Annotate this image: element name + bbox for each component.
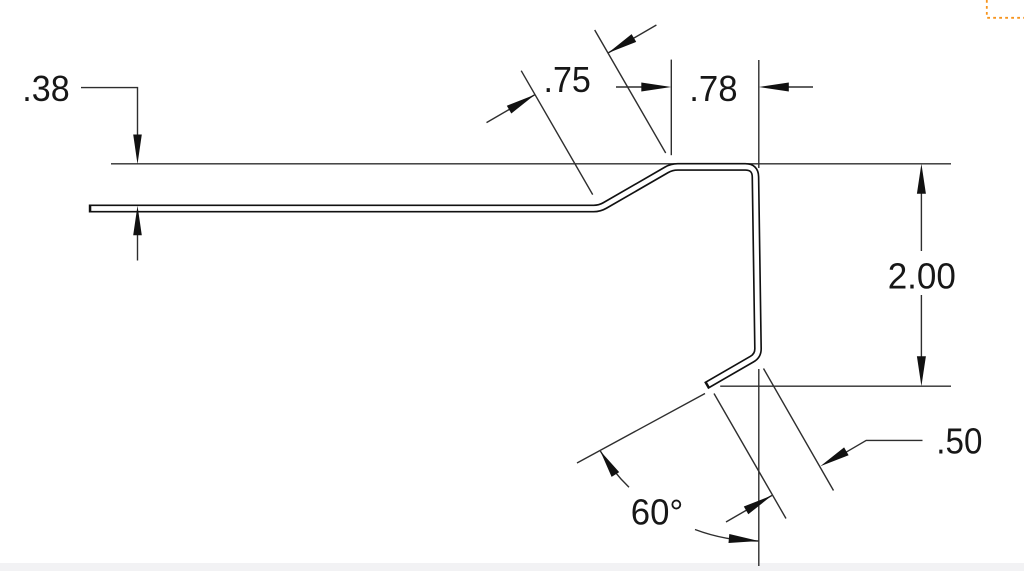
- profile inner white: [91, 167, 758, 384]
- extension line bottom (2.00): [720, 385, 951, 387]
- dim 60 arrow upper: [600, 451, 619, 477]
- svg-text:.75: .75: [544, 59, 591, 100]
- dim .78 right stem: [785, 86, 813, 88]
- dim .38 leader: [81, 88, 138, 150]
- dim .50 arrow upper-right: [820, 447, 848, 466]
- dim .78 arrow right: [759, 83, 789, 92]
- extension line .75 lower: [521, 71, 593, 195]
- svg-text:2.00: 2.00: [888, 256, 956, 297]
- extension line .50 upper: [764, 369, 834, 491]
- dim 2.00 arrow down: [917, 356, 926, 386]
- dim .38 arrow up: [133, 206, 142, 236]
- dim .75 arrow left: [507, 95, 535, 114]
- datum vertical line upper (.78 right extension): [758, 60, 760, 168]
- dim .75 arrow left stem: [487, 95, 536, 123]
- dim 2.00 line lower: [920, 295, 922, 362]
- dim 60 arc piece left: [600, 451, 629, 487]
- dim .78 left stem: [616, 86, 650, 88]
- extension line .50 lower: [714, 394, 786, 519]
- sheet boundary corner (orange dashed): [987, 0, 1024, 18]
- dim .38 arrow down: [133, 135, 142, 165]
- extension line .75 upper: [595, 30, 666, 153]
- svg-text:60°: 60°: [631, 492, 684, 533]
- extension line top (shared .38 / 2.00 datum): [111, 163, 951, 165]
- dim .75 arrow right: [608, 34, 636, 53]
- svg-text:.38: .38: [22, 68, 69, 109]
- extension line .78 left: [670, 60, 672, 156]
- dim .38 stem below: [137, 215, 139, 261]
- profile outer stroke: [93, 167, 758, 384]
- dim .50 left arrow stem: [726, 495, 772, 522]
- status bar band bottom: [0, 563, 1024, 571]
- dim 60 arrow right: [729, 534, 759, 543]
- dim 2.00 line upper: [920, 185, 922, 251]
- dim .50 arrow lower-left: [744, 495, 772, 514]
- dim 60 arc piece right: [695, 530, 759, 542]
- extension line 60-deg (leg extended): [577, 394, 705, 464]
- svg-text:.50: .50: [936, 421, 982, 462]
- dim 2.00 arrow up: [917, 164, 926, 194]
- dim .78 arrow left: [641, 83, 671, 92]
- dim .75 arrow right stem: [608, 25, 656, 53]
- dim .50 leader: [845, 440, 923, 452]
- svg-text:.78: .78: [689, 68, 737, 109]
- datum vertical line lower (60-deg reference): [758, 369, 760, 566]
